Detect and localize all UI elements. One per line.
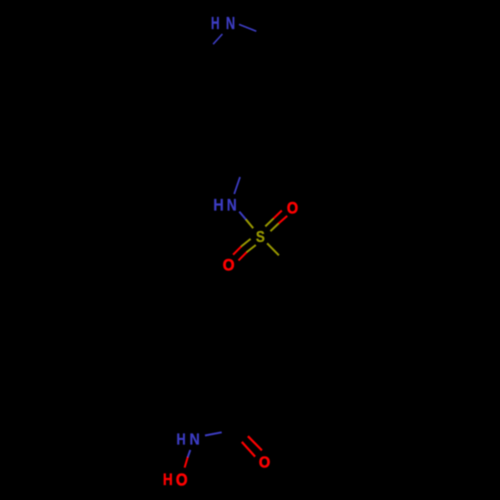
svg-text:H: H: [213, 197, 223, 215]
bond N2-S1 yellow half: [246, 219, 253, 228]
svg-text:S: S: [256, 229, 265, 246]
bond N3-O4 blue half: [188, 450, 191, 457]
svg-text:H: H: [163, 471, 173, 490]
double bond S1=O2 line2 yellow half: [247, 245, 256, 252]
svg-text:H: H: [176, 431, 185, 449]
svg-text:O: O: [259, 454, 270, 472]
svg-text:O: O: [287, 200, 298, 218]
svg-text:H: H: [211, 14, 220, 34]
double bond S1=O1 line2 yellow half: [270, 224, 278, 232]
svg-text:N: N: [227, 196, 237, 215]
double bond C7=O3 line2 red: [242, 442, 255, 457]
bond N1-C4 (azetidine N to lower-left C, blue half): [213, 34, 222, 44]
double bond S1=O1 line1 red half: [273, 211, 282, 219]
double bond S1=O1 line2 red half: [278, 216, 287, 224]
bond N2-S1 blue half: [239, 212, 246, 220]
bond C5-N2 (chain CH2 to sulfonamide N, blue half): [234, 177, 240, 194]
double bond S1=O1 line1 yellow half: [265, 219, 273, 227]
svg-text:N: N: [226, 14, 235, 34]
bond N1-C2 (azetidine N to upper-right C, blue half): [239, 24, 256, 31]
double bond S1=O2 line1 red half: [233, 246, 241, 254]
bond N3-O4 red half: [185, 457, 188, 467]
double bond S1=O2 line2 red half: [239, 252, 247, 260]
svg-text:N: N: [190, 431, 200, 449]
svg-text:O: O: [176, 470, 188, 489]
bond N3-C7 (hydroxamic N to carbonyl C, blue half): [205, 432, 222, 435]
double bond S1=O2 line1 yellow half: [241, 239, 250, 247]
double bond C7=O3 line1 red: [248, 436, 262, 450]
svg-text:O: O: [223, 257, 235, 275]
bond S1-C6 (S to ring carbon, yellow half): [267, 243, 279, 255]
